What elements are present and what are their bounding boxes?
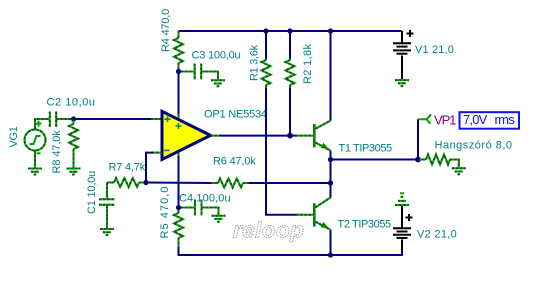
resistor R1 [262,31,271,88]
svg-text:T2 TIP3055: T2 TIP3055 [338,218,392,230]
svg-text:C1 10,0u: C1 10,0u [86,171,98,214]
wire output column [330,160,332,198]
wire R6 left [146,182,211,185]
svg-text:R5 470,0: R5 470,0 [159,185,171,238]
svg-text:R2 1,8k: R2 1,8k [302,43,314,84]
ground of VG1 [28,169,42,175]
node R6/output column [328,180,333,185]
wire T1 collector [330,31,332,121]
ground of V2 (inverted) [395,197,409,205]
battery V1 [393,30,414,79]
node R2/output [287,133,293,139]
resistor R8 [69,119,78,169]
svg-text:reloop: reloop [233,218,304,243]
resistor R4 [174,31,183,69]
svg-text:R7 4,7k: R7 4,7k [109,161,146,173]
svg-text:C3 100,0u: C3 100,0u [192,50,241,62]
wire top positive rail [179,30,403,32]
battery V2 [393,206,413,250]
wire bottom negative rail [179,247,403,255]
wire output to speaker [331,159,419,161]
wire op-amp output to T1 base [219,135,296,137]
svg-text:C2 10,0u: C2 10,0u [47,97,96,109]
transistor T1 TIP3055 [296,121,331,151]
minus marker of V2 [400,192,404,194]
resistor R7 [107,178,144,187]
wire R1 to T2 base [266,88,296,215]
svg-text:Hangszóró 8,0: Hangszóró 8,0 [435,140,513,152]
wire op-amp V- pin down [178,156,180,206]
resistor R5 [174,210,183,247]
wire node to op-amp V+ pin [178,74,180,115]
svg-text:R1 3,6k: R1 3,6k [249,44,261,81]
svg-text:R8 47,0k: R8 47,0k [51,130,63,174]
svg-text:R4 470,0: R4 470,0 [160,9,172,52]
svg-text:VG1: VG1 [8,126,20,147]
op-amp noninverting input lead [151,118,162,120]
node op-amp V- / R5 / C4 [176,205,181,210]
op-amp U1 OP1 [162,111,211,159]
svg-text:V2 21,0: V2 21,0 [417,229,457,241]
node input junction [71,116,76,121]
svg-text:V1 21,0: V1 21,0 [415,44,454,56]
resistor R6 [211,179,249,188]
probe VP1 [418,114,431,123]
node inverting input junction [143,180,148,185]
wire R2 to output node [289,88,291,136]
capacitor C4 [181,200,219,216]
capacitor C3 [181,64,218,81]
transistor T2 TIP3055 [296,198,331,230]
wire input to op-amp [74,118,163,120]
ground of R8 [67,169,81,175]
wire probe VP1 [417,119,419,159]
wire T1 emitter to output node [330,151,332,160]
node rail R1 [263,28,268,33]
ground of speaker [452,168,466,174]
svg-text:T1 TIP3055: T1 TIP3055 [339,143,393,155]
op-amp inverting input lead [152,152,162,154]
node rail T1 collector [328,28,333,33]
ground of C4 [212,216,226,222]
wire R6 right to output column [249,182,331,184]
op-amp output lead [211,135,220,137]
svg-text:R6 47,0k: R6 47,0k [213,156,256,168]
node R4/C3/op-amp V+ [176,69,181,74]
speaker Hangszóró (resistor symbol) [418,155,459,169]
svg-text:C4 100,0u: C4 100,0u [179,193,231,205]
ground of C3 [211,80,225,86]
wire T2 emitter to bottom rail [330,230,332,255]
ground of V1 [395,80,409,86]
svg-text:7,0V: 7,0V [463,112,488,127]
meter box 7,0V rms [460,112,520,129]
resistor R2 [286,31,295,88]
svg-text:rms: rms [495,112,516,127]
node rail R2 [287,28,292,33]
ground of C1 [100,229,114,235]
svg-text:VP1: VP1 [434,112,456,127]
svg-text:OP1 NE5534: OP1 NE5534 [204,108,267,120]
capacitor C1 [99,183,115,230]
voltage generator VG1 [25,119,50,169]
node speaker/probe [415,157,421,163]
node output/speaker [328,157,333,162]
capacitor C2 [50,112,71,128]
wire inverting input [146,153,153,183]
node bottom rail [328,252,333,257]
